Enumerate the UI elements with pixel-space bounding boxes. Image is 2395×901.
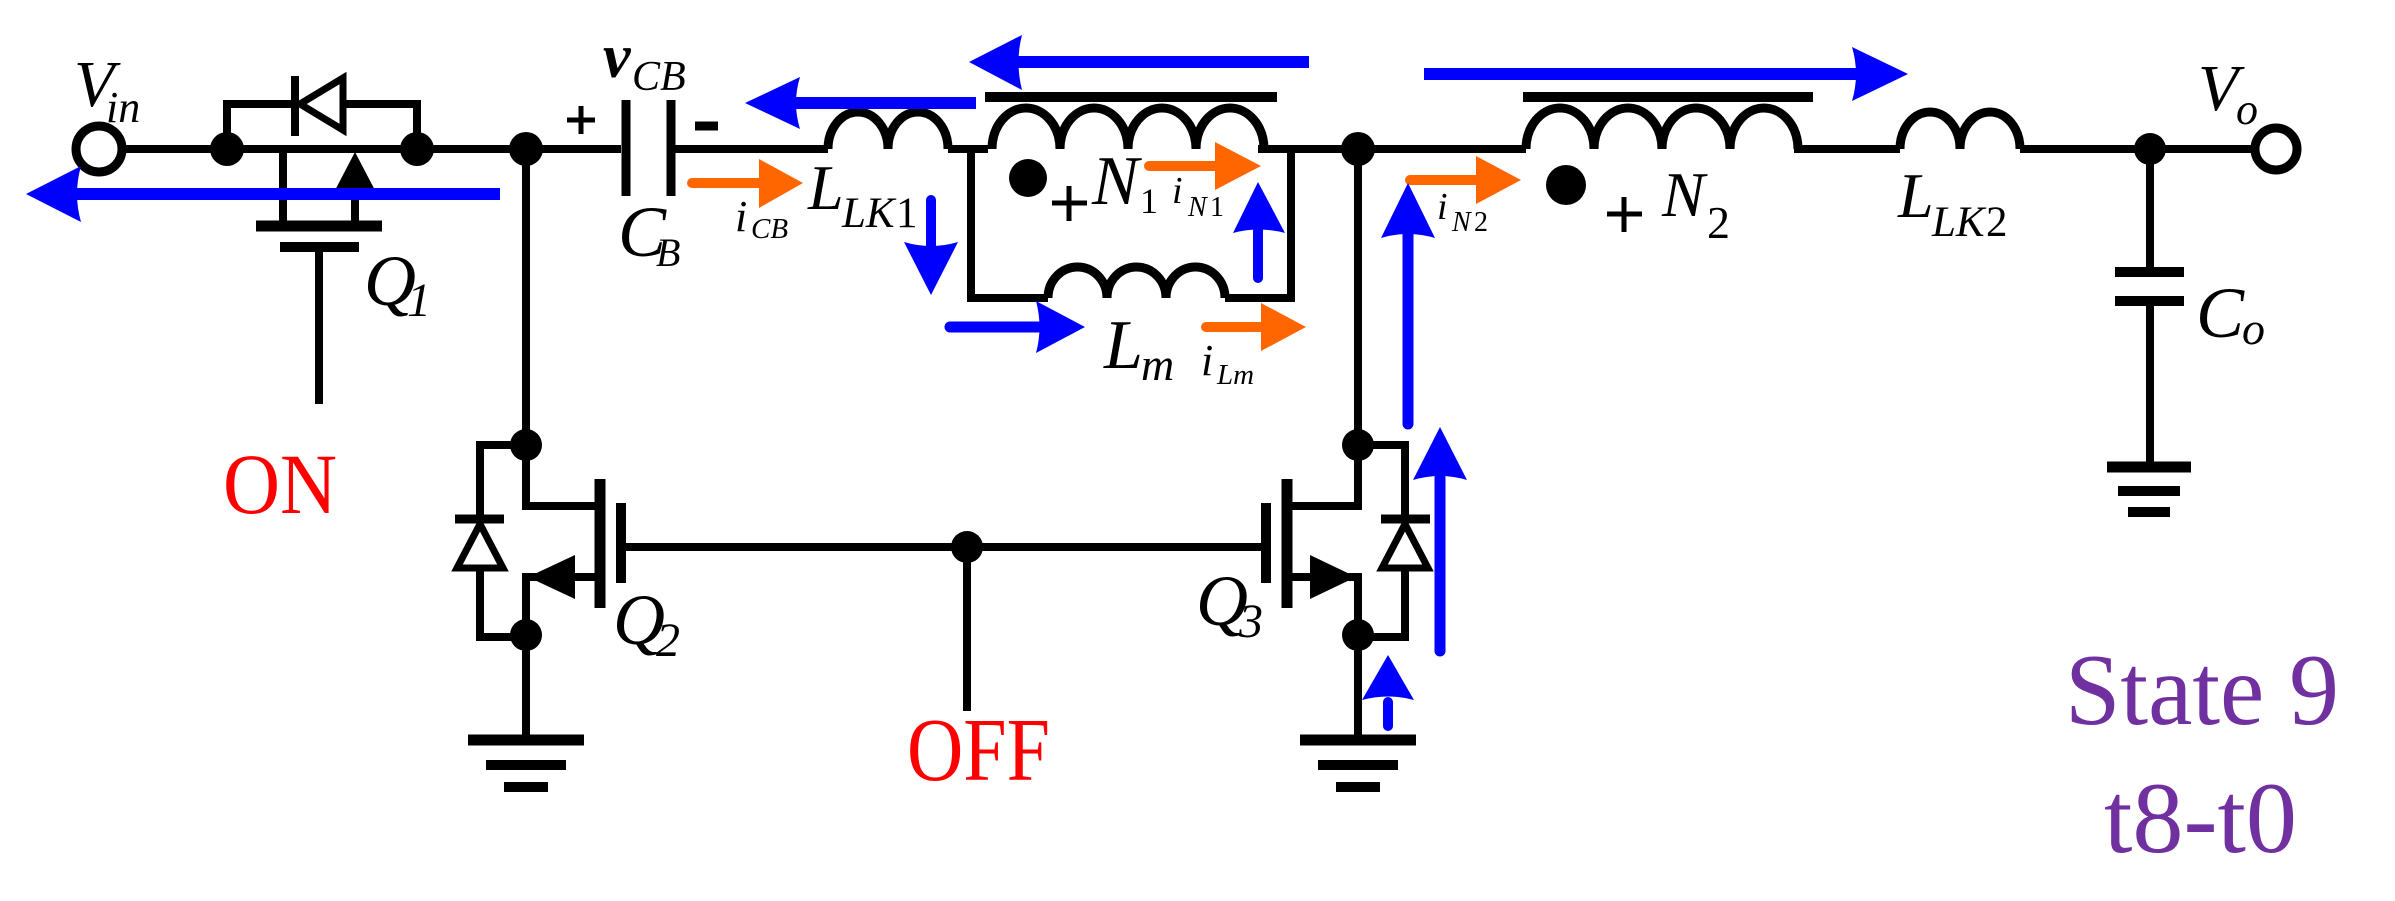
diode D1 triangle (300, 78, 343, 130)
svg-text:i: i (1201, 336, 1213, 385)
transistor Q3 source arrow (1310, 555, 1356, 599)
wire: N2 to LLK2 (1794, 145, 1900, 153)
diode D2 triangle (457, 524, 503, 568)
inductor LLK2 (1900, 112, 2020, 149)
blue arrow: top of N1 pointing left (1016, 56, 1309, 68)
wire: LLK2 to Vo (2020, 145, 2253, 153)
transistor Q3 gate bar (1261, 503, 1271, 583)
svg-text:LK: LK (1931, 199, 1987, 246)
svg-text:o: o (2242, 303, 2265, 354)
wire: Q3 diode bottom (1358, 568, 1405, 637)
svg-text:i: i (735, 192, 747, 241)
node B (Q1 right) (400, 132, 434, 166)
wire: node C down to Q2 (522, 149, 530, 447)
blue arrow: up along Q3 branch (tall) (1403, 232, 1414, 424)
transistor Q1 source lead (351, 160, 359, 221)
wire: Q2 diode top (480, 445, 526, 517)
transistor Q2 channel bar (595, 479, 606, 608)
wire: loop bottom right (1225, 294, 1295, 302)
capacitor Co plate bottom (2115, 296, 2184, 306)
diode D3 cathode bar (1381, 515, 1430, 524)
polarity dot N1 (1009, 159, 1047, 197)
transistor Q2 source arrow (528, 555, 575, 599)
capacitor CB plate left (622, 100, 631, 196)
polarity dot N2 (1546, 165, 1586, 205)
svg-text:m: m (1141, 339, 1174, 390)
orange arrow iLm (1206, 322, 1264, 332)
node H (gate bus junction) (951, 531, 983, 563)
svg-text:i: i (1437, 186, 1448, 228)
plus sign CB (567, 106, 595, 134)
transformer core bar N2 (1523, 92, 1813, 102)
svg-text:2: 2 (1474, 207, 1488, 238)
transistor Q1 gate bar (280, 242, 359, 252)
winding N1 (992, 108, 1264, 149)
svg-text:2: 2 (1707, 197, 1730, 248)
wire: gate stub down (963, 547, 971, 711)
transistor Q2 gate bar (616, 503, 626, 583)
diode D1 cathode bar (291, 76, 299, 136)
diode D2 cathode bar (455, 515, 504, 524)
orange arrow iN1 (1149, 161, 1218, 171)
transistor Q1 drain lead (279, 149, 287, 221)
node E (output junction) (2134, 133, 2166, 165)
node I (Q3 drain junction) (1342, 429, 1374, 461)
svg-text:1: 1 (896, 190, 918, 237)
wire: node D down to Q3 (1354, 149, 1362, 447)
transistor Q1 gate lead (315, 252, 323, 404)
orange arrow iN2 (1410, 175, 1479, 185)
wire: transformer loop left side (967, 149, 975, 298)
node D (transformer mid junction) (1341, 132, 1375, 166)
orange arrow iCB (692, 178, 762, 188)
winding N2 (1526, 108, 1798, 149)
svg-text:CB: CB (632, 54, 686, 100)
svg-text:N: N (1091, 143, 1142, 220)
transistor Q3 channel bar (1282, 479, 1293, 608)
transistor Q2 drain lead (526, 445, 597, 506)
svg-text:L: L (807, 152, 844, 223)
svg-text:State 9: State 9 (2065, 634, 2339, 747)
blue arrow: top of N2 pointing right (1424, 68, 1860, 80)
svg-text:in: in (106, 83, 140, 132)
node J (Q3 source junction) (1342, 619, 1374, 651)
minus sign CB (695, 122, 718, 131)
ground (Q2) (468, 735, 584, 746)
ground (output) (2107, 462, 2191, 473)
wire: loop bottom left (967, 294, 1048, 302)
svg-text:N: N (1187, 192, 1208, 223)
blue arrow: beside Q3 diode (up) (1435, 478, 1446, 651)
blue arrow: input current (left) (74, 188, 500, 200)
wire: Q2 diode bottom (480, 568, 526, 637)
capacitor CB plate right (667, 100, 676, 196)
wire: transformer loop right side (1287, 149, 1295, 298)
node A (Vin-Q1 left) (210, 132, 244, 166)
transistor Q3 source lead (1290, 577, 1358, 637)
blue arrow: below Q3 source (up, small) (1383, 702, 1393, 726)
svg-text:L: L (1103, 307, 1143, 384)
diode D3 triangle (1382, 524, 1428, 568)
terminal Vo (2255, 128, 2297, 170)
inductor LLK1 (828, 112, 948, 149)
transformer core bar N1 (985, 92, 1277, 102)
svg-text:1: 1 (1140, 181, 1158, 221)
wire: Q3 diode top (1358, 445, 1405, 517)
plus sign N2 (1607, 197, 1642, 232)
svg-text:Lm: Lm (1216, 359, 1254, 391)
blue arrow: above CB pointing left (793, 97, 976, 109)
svg-text:2: 2 (656, 614, 680, 667)
svg-text:ON: ON (223, 436, 337, 532)
transistor Q1 channel bar (256, 221, 382, 232)
svg-text:N: N (1661, 159, 1708, 230)
blue arrow: down at left of transformer (926, 200, 936, 250)
wire: Co to ground (2146, 306, 2154, 462)
wire: gate bus Q2-Q3 (626, 543, 1262, 551)
ground (Q3) (1300, 735, 1416, 746)
svg-text:CB: CB (751, 213, 788, 245)
svg-text:v: v (603, 23, 632, 91)
node C (top of Q2 branch) (509, 132, 543, 166)
svg-text:OFF: OFF (907, 701, 1050, 800)
wire: Q1 body-diode branch left (227, 104, 291, 149)
wire: node E to Co (2146, 149, 2154, 267)
svg-text:3: 3 (1238, 595, 1263, 648)
wire: N1 to N2 (1258, 145, 1526, 153)
svg-text:N: N (1451, 207, 1472, 238)
transistor Q1 source arrow (332, 152, 378, 196)
svg-text:1: 1 (407, 274, 431, 327)
blue arrow: right below Lm (950, 322, 1040, 333)
blue arrow: up inside loop right (1253, 230, 1263, 278)
wire: Q3 to ground (1354, 635, 1362, 735)
plus sign N1 (1052, 186, 1087, 221)
wire: CB to LLK1 (675, 145, 828, 153)
wire: Q2 to ground (522, 635, 530, 735)
svg-text:LK: LK (841, 190, 897, 237)
svg-text:B: B (656, 230, 680, 275)
transistor Q2 source lead (526, 577, 597, 637)
svg-text:o: o (2236, 85, 2258, 134)
wire: LLK1 to N1 (948, 145, 988, 153)
wire: Q1 body-diode branch right (346, 104, 417, 149)
svg-text:L: L (1897, 160, 1934, 231)
svg-text:t8-t0: t8-t0 (2104, 762, 2297, 875)
node G (Q2 source junction) (510, 619, 542, 651)
svg-text:1: 1 (1210, 192, 1224, 223)
svg-text:C: C (2196, 273, 2245, 353)
terminal Vin (76, 126, 122, 172)
node F (Q2 drain junction) (510, 429, 542, 461)
svg-text:i: i (1172, 170, 1183, 212)
transistor Q3 drain lead (1290, 445, 1358, 506)
svg-text:2: 2 (1986, 199, 2008, 246)
inductor Lm (1048, 267, 1225, 298)
wire: Vin to CB (122, 145, 621, 153)
capacitor Co plate top (2115, 267, 2184, 277)
